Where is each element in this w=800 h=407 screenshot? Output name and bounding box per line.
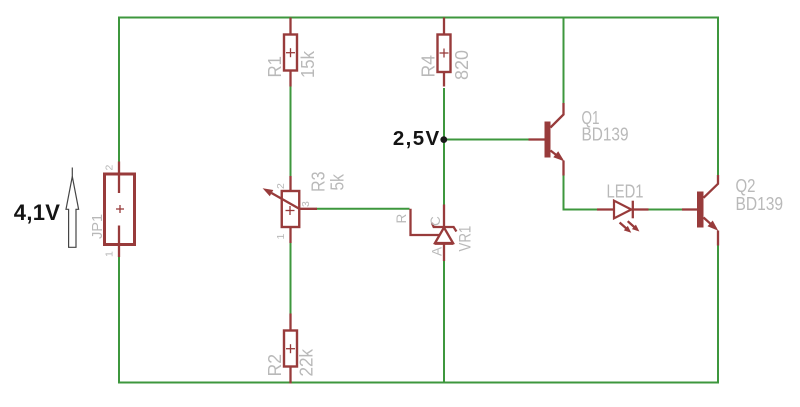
svg-text:2,5V: 2,5V — [393, 127, 441, 150]
shunt regulator VR1 (TL431) — [411, 205, 457, 262]
svg-text:JP1: JP1 — [90, 214, 106, 239]
wire segment VR1 anode to GND — [443, 261, 445, 383]
voltage arrow 4,1V — [66, 168, 79, 248]
svg-text:4,1V: 4,1V — [14, 200, 60, 225]
wire segment R4 to VR1 cathode — [443, 88, 445, 205]
svg-text:R3: R3 — [309, 172, 329, 193]
resistor R4 — [438, 18, 451, 87]
potentiometer R3 — [263, 176, 317, 243]
svg-text:2: 2 — [104, 165, 116, 171]
svg-text:22k: 22k — [297, 348, 317, 376]
resistor R1 — [284, 18, 297, 87]
svg-text:BD139: BD139 — [582, 124, 629, 145]
wire right rail upper (VCC to Q2 collector) — [717, 17, 719, 176]
wire segment VCC to Q1 collector — [563, 18, 565, 104]
svg-text:1: 1 — [275, 234, 287, 240]
svg-text:R1: R1 — [265, 56, 285, 78]
wire net VCC top rail — [118, 17, 719, 19]
svg-text:820: 820 — [452, 50, 472, 80]
svg-text:R: R — [394, 214, 409, 224]
wire left rail upper (JP1 pin2 to VCC) — [118, 17, 120, 163]
svg-text:15k: 15k — [298, 50, 318, 78]
svg-text:VR1: VR1 — [456, 226, 475, 252]
svg-text:BD139: BD139 — [736, 193, 784, 214]
transistor Q1 — [529, 103, 565, 176]
svg-text:1: 1 — [104, 251, 116, 257]
wire segment R1 to R3 — [290, 86, 292, 177]
svg-text:3: 3 — [300, 201, 312, 207]
connector JP1 — [105, 162, 135, 258]
svg-text:5k: 5k — [328, 173, 348, 190]
svg-text:R4: R4 — [419, 55, 439, 78]
wire segment LED1 cathode to Q2 base — [648, 209, 683, 211]
wire net GND bottom rail — [118, 382, 719, 384]
junction dot node 2,5V — [440, 136, 447, 143]
wire segment R3 to R2 — [290, 243, 292, 315]
svg-text:R2: R2 — [265, 354, 285, 377]
wire segment node 2,5V to Q1 base — [444, 139, 529, 141]
wire segment Q1 emitter to LED1 anode — [564, 176, 598, 210]
svg-text:2: 2 — [275, 183, 287, 189]
svg-text:C: C — [428, 216, 443, 226]
svg-text:A: A — [430, 247, 445, 256]
resistor R2 — [284, 314, 297, 384]
transistor Q2 — [682, 175, 718, 246]
wire left rail lower (JP1 pin1 to GND) — [118, 256, 120, 384]
LED LED1 — [597, 201, 649, 233]
svg-text:LED1: LED1 — [607, 180, 644, 201]
wire right rail lower (Q2 emitter to GND) — [717, 245, 719, 384]
wire segment R3 wiper to VR1 ref — [317, 208, 410, 210]
